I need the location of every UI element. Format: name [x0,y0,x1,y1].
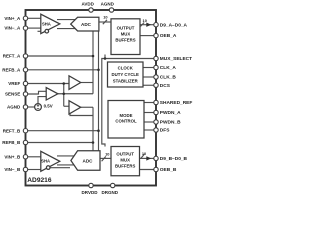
svg-text:10: 10 [142,151,146,156]
svg-text:STABILIZER: STABILIZER [113,79,139,84]
svg-text:OEB_B: OEB_B [160,167,177,173]
svg-text:CLOCK: CLOCK [118,66,134,71]
svg-text:MODE: MODE [120,113,133,118]
svg-text:DRGND: DRGND [102,190,119,195]
svg-text:ADC: ADC [83,159,94,164]
svg-text:AGND: AGND [101,2,115,7]
svg-text:D9_B–D0_B: D9_B–D0_B [160,156,188,162]
svg-text:DUTY CYCLE: DUTY CYCLE [112,72,140,77]
svg-text:REFB_B: REFB_B [2,140,21,145]
svg-text:MUX_SELECT: MUX_SELECT [160,56,192,62]
svg-text:D9_A–D0_A: D9_A–D0_A [160,22,188,28]
svg-text:VIN+_B: VIN+_B [4,154,21,159]
svg-text:10: 10 [143,18,147,23]
svg-text:DRVDD: DRVDD [82,190,99,195]
svg-text:ADC: ADC [81,22,92,27]
svg-text:SHA: SHA [41,159,50,164]
svg-text:0.5V: 0.5V [44,104,53,109]
svg-text:VIN−_A: VIN−_A [4,26,21,31]
svg-text:10: 10 [103,15,107,20]
svg-text:MUX: MUX [120,158,130,163]
svg-text:DFS: DFS [160,128,170,134]
svg-text:10: 10 [105,151,109,156]
svg-text:OUTPUT: OUTPUT [116,152,134,157]
svg-text:OEB_A: OEB_A [160,33,177,39]
svg-text:REFT_B: REFT_B [3,128,21,133]
svg-text:MUX: MUX [121,32,131,37]
svg-text:SENSE: SENSE [5,92,20,97]
svg-text:PWDN_B: PWDN_B [160,120,181,126]
svg-text:BUFFERS: BUFFERS [115,164,135,169]
svg-text:CONTROL: CONTROL [115,118,137,123]
svg-text:CLK_B: CLK_B [160,75,177,81]
svg-text:BUFFERS: BUFFERS [115,38,135,43]
svg-text:CLK_A: CLK_A [160,65,177,71]
svg-text:DCS: DCS [160,83,171,89]
svg-text:REFB_A: REFB_A [2,67,21,72]
svg-text:VIN+_A: VIN+_A [4,16,21,21]
svg-text:OUTPUT: OUTPUT [117,26,135,31]
svg-text:REFT_A: REFT_A [3,54,21,59]
svg-text:AVDD: AVDD [81,2,94,7]
svg-text:VREF: VREF [8,81,20,86]
svg-text:AGND: AGND [7,105,21,110]
svg-text:AD9216: AD9216 [27,177,52,184]
svg-text:VIN−_B: VIN−_B [4,167,21,172]
svg-text:SHARED_REF: SHARED_REF [160,100,193,106]
svg-text:PWDN_A: PWDN_A [160,110,181,116]
svg-text:SHA: SHA [42,22,51,27]
